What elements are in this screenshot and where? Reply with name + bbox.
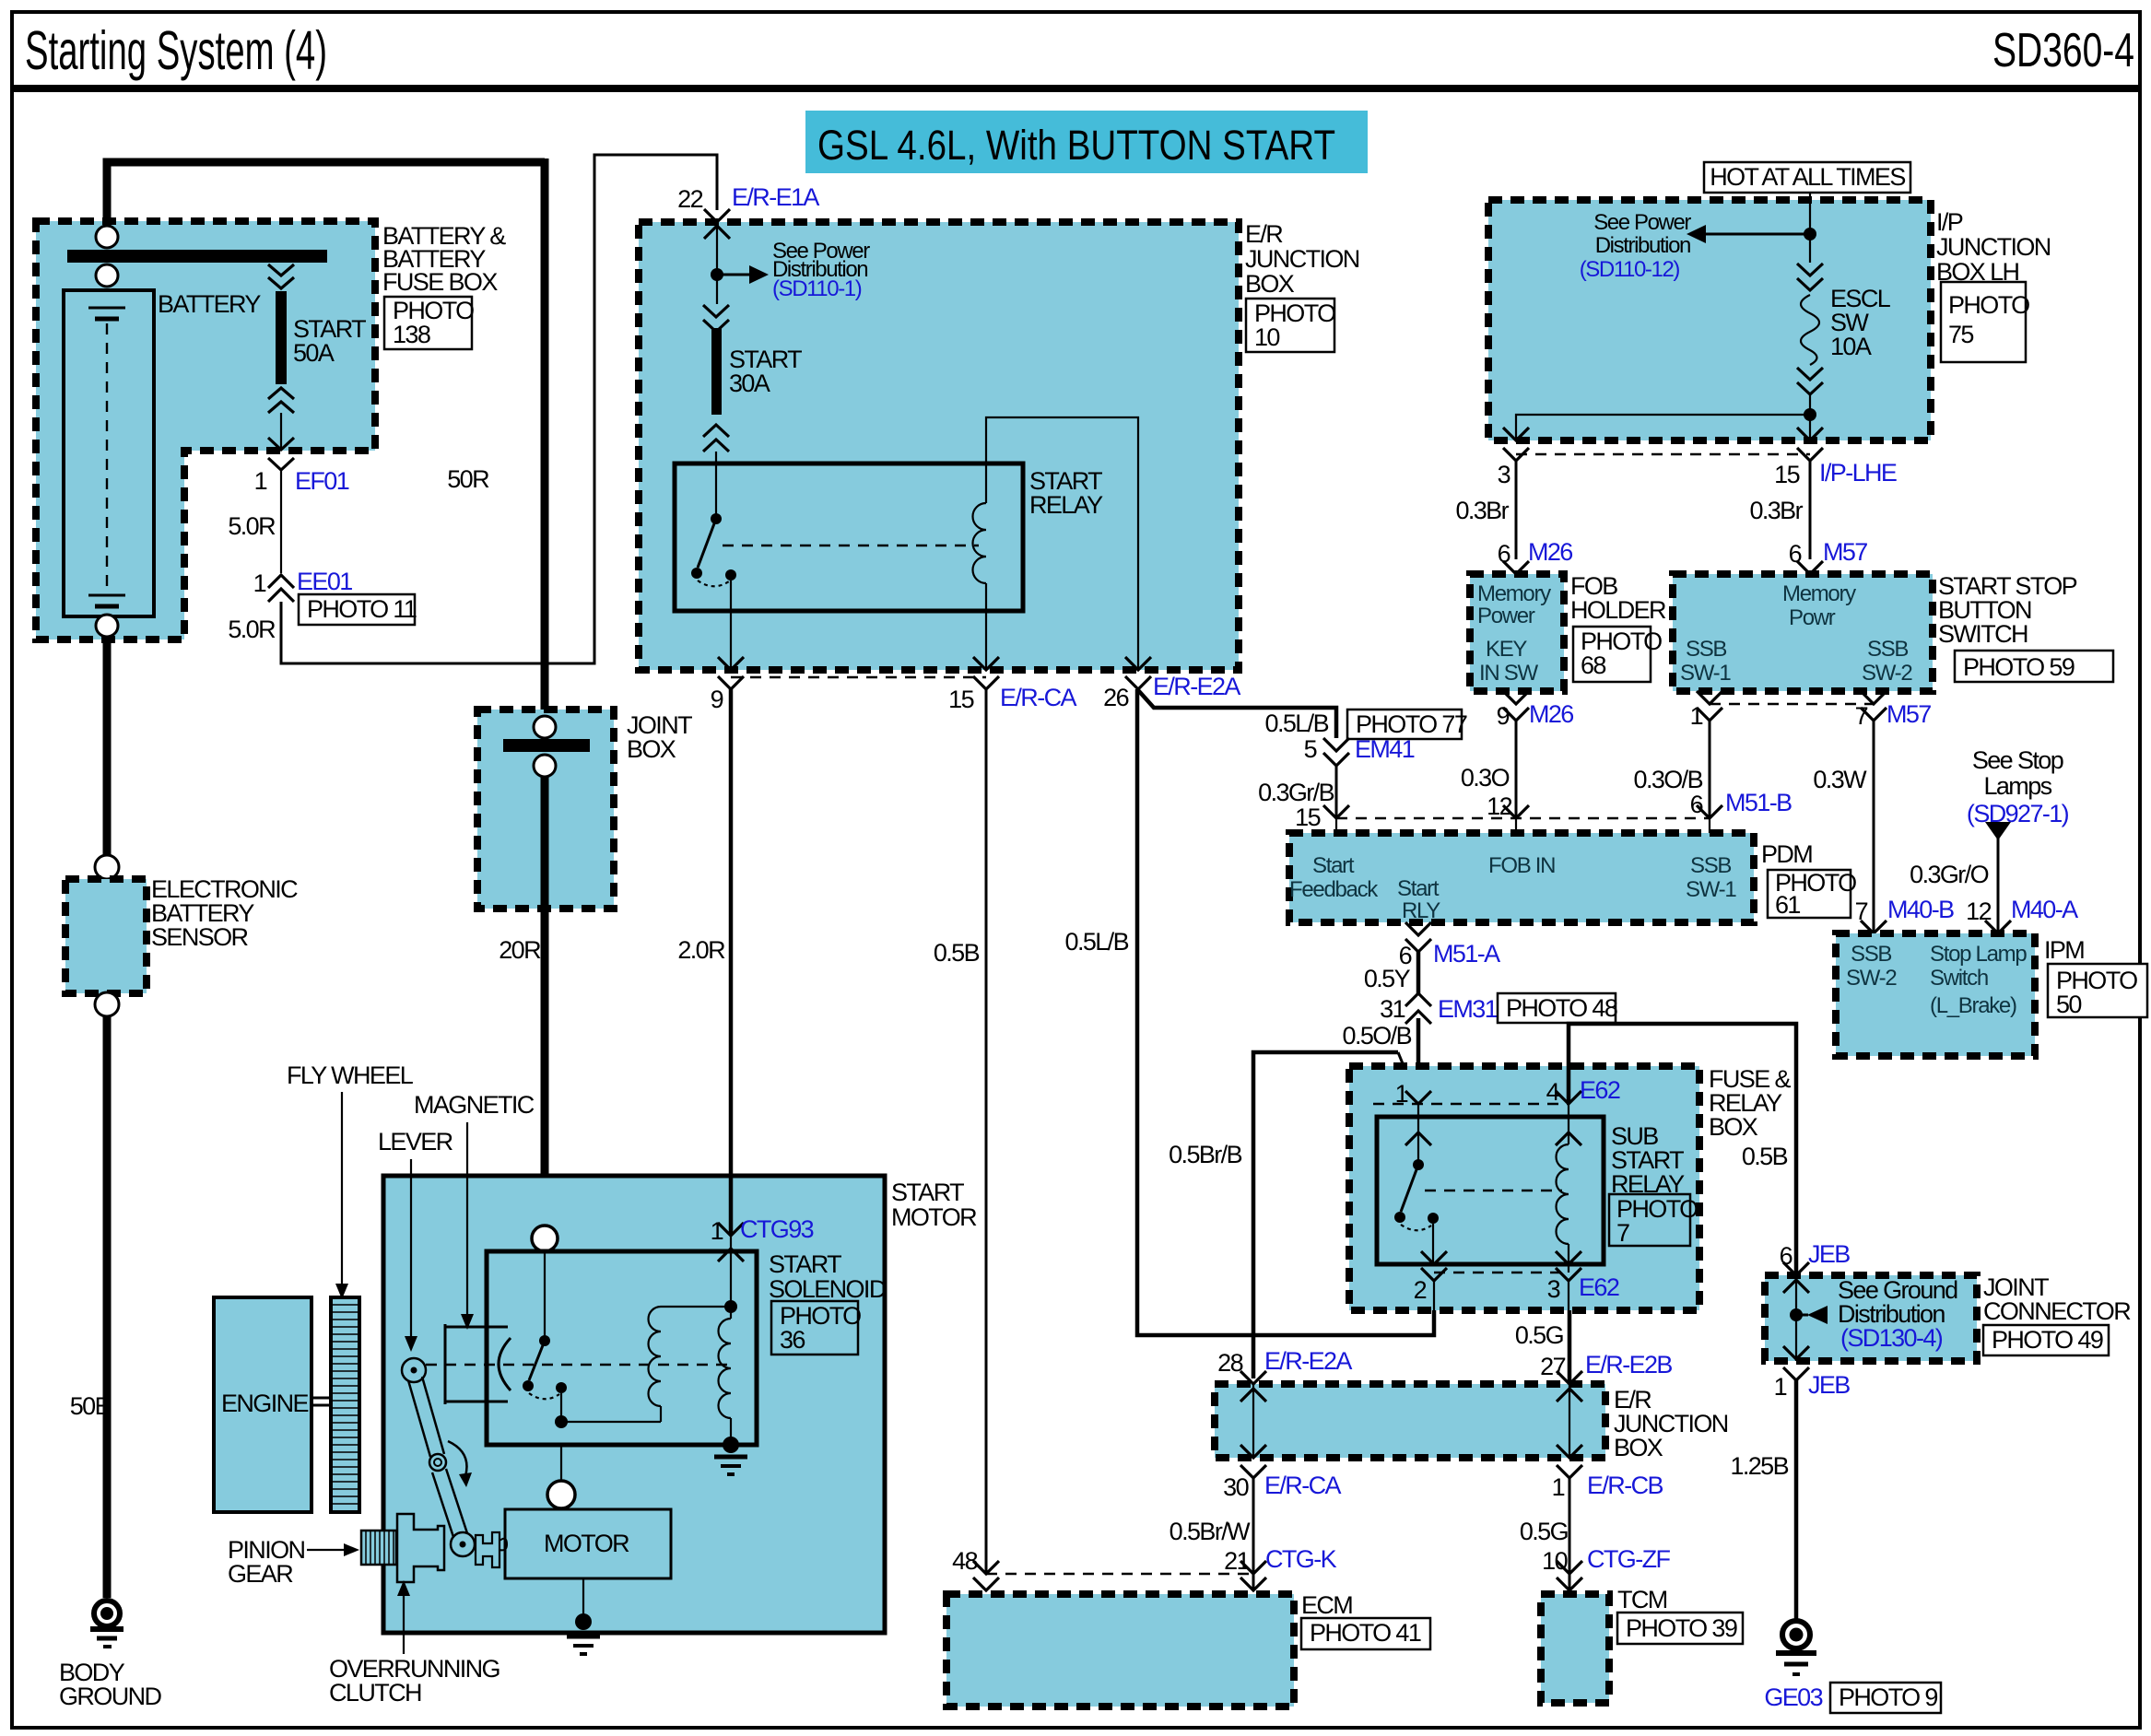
chevrons below ESCL: [1797, 368, 1823, 394]
arrows at box bottom pin9: [718, 657, 744, 689]
svg-text:PHOTO 77: PHOTO 77: [1356, 710, 1467, 738]
electronic battery sensor box: [65, 879, 147, 993]
solenoid dotted throw arc: [529, 1393, 559, 1399]
wire 0.5Br/W 30 to CTG-K: [1252, 1478, 1255, 1590]
wire 22 to junction dot: [716, 222, 718, 304]
svg-text:Starting System (4): Starting System (4): [25, 20, 327, 81]
junction dot see power: [711, 268, 723, 281]
hold-in coil junction dot: [724, 1300, 737, 1313]
solenoid contact dot right: [556, 1382, 567, 1393]
relay2 switch common dot: [1413, 1159, 1424, 1170]
svg-text:15: 15: [1774, 461, 1799, 488]
svg-text:15: 15: [948, 686, 973, 713]
svg-text:SWITCH: SWITCH: [1938, 620, 2028, 648]
wire EE01 loop to E/R-E1A: [281, 155, 717, 663]
svg-text:0.3O/B: 0.3O/B: [1634, 766, 1703, 793]
connector 21: [1240, 1561, 1266, 1590]
relay2 switch arm: [1401, 1165, 1418, 1212]
wire 2.0R relay9 to CTG93: [729, 689, 734, 1235]
svg-text:PHOTO 41: PHOTO 41: [1310, 1619, 1421, 1647]
branch wire left to pin3: [1516, 415, 1810, 440]
fuse START 30A bar: [711, 328, 722, 415]
PDM pin V 6: [1697, 805, 1722, 818]
E/R junction box dashed: [639, 222, 1239, 670]
svg-text:9: 9: [711, 686, 723, 713]
relay2 coil wire bottom: [1568, 1244, 1569, 1273]
battery terminal circle 2: [96, 264, 118, 287]
solenoid plunger: [444, 1324, 447, 1404]
connector 9 M26 below FOB: [1503, 691, 1529, 721]
svg-text:START: START: [769, 1250, 841, 1278]
svg-text:48: 48: [952, 1547, 977, 1575]
connector 28 V at top: [1240, 1371, 1266, 1384]
pin row dashed bottom: [1434, 1272, 1569, 1273]
svg-text:LEVER: LEVER: [378, 1128, 453, 1155]
svg-text:PHOTO: PHOTO: [1948, 291, 2029, 319]
fuse START 50A bar: [276, 291, 287, 384]
battery bottom terminal circle: [96, 615, 118, 637]
wire contact to motor node: [560, 1393, 562, 1422]
svg-text:GROUND: GROUND: [59, 1683, 161, 1710]
wire 0.5O/B horizontal to 28: [1253, 1052, 1398, 1378]
relay contact dot left: [691, 568, 702, 579]
svg-text:ENGINE: ENGINE: [221, 1390, 309, 1417]
solenoid ground dot: [723, 1437, 739, 1453]
svg-text:Memory: Memory: [1782, 581, 1856, 606]
chevrons below fuse: [703, 425, 729, 452]
see power distribution arrow left: [1706, 233, 1810, 236]
connector M51-A below PDM: [1405, 922, 1431, 952]
relay switch common dot: [711, 513, 722, 524]
clutch spring squiggle: [500, 1539, 507, 1551]
svg-text:M57: M57: [1887, 700, 1931, 728]
PDM wires into box: [1336, 818, 1710, 833]
battery bus bar: [67, 250, 327, 263]
svg-text:Stop Lamp: Stop Lamp: [1930, 942, 2027, 967]
svg-text:JUNCTION: JUNCTION: [1936, 233, 2051, 261]
relay dotted throw arc: [698, 581, 729, 586]
battery box: [64, 290, 154, 616]
chevron below 22 inside box: [704, 226, 730, 239]
connector 27 V at top: [1557, 1371, 1582, 1384]
pass-through wire 28-30: [1252, 1384, 1254, 1458]
wire EM31 to pin1: [1416, 1018, 1421, 1102]
connector 48: [973, 1561, 999, 1590]
lever arm lower: [432, 1472, 453, 1537]
ground GE03: [1782, 1621, 1810, 1648]
start solenoid box: [487, 1251, 757, 1445]
svg-text:M57: M57: [1823, 538, 1867, 566]
chevron up 27: [1557, 1389, 1582, 1402]
svg-text:E/R-CA: E/R-CA: [1264, 1472, 1341, 1499]
wire 0.3W SSB2 to IPM: [1873, 721, 1875, 933]
svg-text:0.3Br: 0.3Br: [1749, 497, 1803, 524]
svg-text:MOTOR: MOTOR: [544, 1530, 629, 1557]
chevrons above fuse: [703, 305, 729, 332]
svg-text:M26: M26: [1529, 700, 1573, 728]
relay2 mech dashed link: [1425, 1190, 1562, 1191]
svg-text:10: 10: [1254, 323, 1279, 351]
flywheel pointer arrow: [341, 1092, 343, 1285]
svg-text:5: 5: [1304, 735, 1317, 763]
clutch fork bracket: [476, 1532, 500, 1567]
connector row dashed 9-15: [731, 676, 986, 678]
20R terminal circle on solenoid: [532, 1226, 558, 1251]
PHOTO 77 box: [1347, 710, 1462, 739]
wire contact to pin2: [1432, 1224, 1434, 1264]
svg-text:61: 61: [1775, 891, 1800, 919]
connector 7 M57 below SSB: [1861, 691, 1887, 721]
E/R junction box 2 dashed: [1215, 1384, 1605, 1458]
connector EM31 chevrons: [1405, 993, 1431, 1024]
solenoid lower junction dot: [555, 1415, 568, 1428]
svg-text:20R: 20R: [499, 936, 541, 964]
engine shaft: [311, 1397, 331, 1400]
svg-text:0.3Gr/B: 0.3Gr/B: [1258, 779, 1334, 806]
arrow down at jeb bottom: [1783, 1346, 1809, 1380]
svg-text:FUSE BOX: FUSE BOX: [382, 268, 498, 296]
connector EF01 arrows: [268, 438, 294, 470]
plunger cap arc: [499, 1338, 511, 1390]
svg-text:JUNCTION: JUNCTION: [1245, 245, 1359, 273]
arrow down 1: [1557, 1445, 1582, 1478]
wire EM41 to PDM15: [1335, 766, 1338, 818]
pinion pointer arrow: [307, 1549, 346, 1551]
pin2 arrow at relay box bottom: [1421, 1251, 1447, 1281]
PHOTO 75 box: [1941, 282, 2026, 362]
relay coil wire top: [986, 417, 1138, 670]
svg-text:Memory: Memory: [1477, 581, 1551, 606]
svg-text:SW-2: SW-2: [1846, 966, 1897, 991]
PHOTO 49 box: [1983, 1325, 2109, 1355]
junction dot: [1804, 228, 1816, 240]
PDM box dashed: [1289, 833, 1754, 922]
svg-text:(SD110-1): (SD110-1): [772, 276, 862, 301]
svg-text:Lamps: Lamps: [1983, 772, 2051, 800]
svg-text:(SD130-4): (SD130-4): [1840, 1324, 1943, 1352]
svg-text:30A: 30A: [729, 369, 770, 397]
wire inside jeb: [1795, 1275, 1797, 1361]
motor terminal circle: [547, 1481, 575, 1508]
connector EE01 chevrons: [268, 575, 294, 602]
svg-text:MOTOR: MOTOR: [891, 1203, 977, 1231]
svg-text:HOT AT ALL TIMES: HOT AT ALL TIMES: [1710, 163, 1905, 191]
overrunning pointer arrow: [403, 1594, 405, 1654]
svg-text:SSB: SSB: [1686, 637, 1726, 662]
hold-in coil: [719, 1319, 732, 1418]
svg-text:0.5B: 0.5B: [1742, 1143, 1788, 1170]
relay switch arm: [698, 519, 716, 568]
see power branch arrow: [717, 274, 749, 276]
lever elbow circle: [429, 1454, 446, 1471]
svg-text:EM41: EM41: [1355, 735, 1415, 763]
svg-text:0.3W: 0.3W: [1813, 766, 1867, 793]
connector 10: [1557, 1561, 1582, 1590]
svg-text:3: 3: [1498, 461, 1510, 488]
svg-text:138: 138: [393, 321, 430, 348]
ECM box dashed: [946, 1594, 1294, 1707]
wire 0.5L/B vertical 26 to pin2 loop: [1137, 689, 1434, 1335]
lever top circle: [402, 1358, 426, 1382]
FOB holder box dashed: [1470, 574, 1564, 691]
connector 22 E/R-E1A: [704, 209, 730, 239]
wire 0.3Br right M57: [1809, 461, 1812, 559]
banner box GSL 4.6L: [805, 111, 1368, 173]
svg-text:RELAY: RELAY: [1029, 491, 1103, 519]
svg-text:PHOTO 39: PHOTO 39: [1626, 1614, 1737, 1642]
solenoid switch arm: [529, 1341, 545, 1380]
svg-text:Distribution: Distribution: [1595, 233, 1690, 258]
svg-text:See Stop: See Stop: [1972, 746, 2063, 774]
svg-text:1: 1: [1774, 1373, 1787, 1401]
svg-text:15: 15: [1295, 803, 1320, 831]
wire 50B battery to sensor: [103, 637, 112, 856]
arrows at box bottom pin26: [1125, 657, 1151, 689]
wire pin1 to switch: [1417, 1104, 1419, 1165]
svg-text:SOLENOID: SOLENOID: [769, 1275, 887, 1303]
svg-text:GEAR: GEAR: [228, 1560, 293, 1588]
svg-text:BOX: BOX: [1709, 1113, 1758, 1141]
connector 12 M40-A: [1985, 921, 2011, 933]
svg-text:0.3O: 0.3O: [1461, 764, 1510, 792]
svg-text:0.5G: 0.5G: [1520, 1518, 1568, 1545]
motor ground dot: [575, 1613, 592, 1630]
svg-text:75: 75: [1948, 321, 1973, 348]
battery symbol top plates: [88, 307, 125, 310]
relay2 contact dot right: [1428, 1213, 1439, 1224]
wire to lower junction dot: [1809, 394, 1811, 440]
flywheel: [331, 1297, 359, 1512]
connector 6 M26: [1503, 561, 1529, 574]
svg-text:1: 1: [1552, 1473, 1565, 1501]
ECM pin row dashed: [986, 1573, 1253, 1575]
svg-text:5.0R: 5.0R: [228, 616, 276, 643]
pass-through wire 27-1: [1569, 1384, 1570, 1458]
TCM box dashed: [1541, 1594, 1609, 1703]
svg-text:10: 10: [1542, 1547, 1567, 1575]
START STOP BUTTON SWITCH box dashed: [1673, 574, 1933, 691]
wire motor to ground: [582, 1578, 584, 1620]
svg-text:SD360-4: SD360-4: [1992, 24, 2134, 77]
relay2 contact dot left: [1394, 1212, 1405, 1223]
wire 1.25B to ground: [1794, 1380, 1799, 1619]
pull-in coil: [649, 1307, 662, 1406]
jeb junction dot: [1790, 1308, 1803, 1321]
chevron up inside jeb: [1783, 1280, 1809, 1293]
svg-text:BOX: BOX: [1245, 270, 1295, 298]
header rule: [12, 85, 2140, 92]
svg-text:SENSOR: SENSOR: [151, 923, 249, 951]
pinion gear: [361, 1531, 396, 1565]
svg-text:BOX: BOX: [1614, 1434, 1663, 1461]
wire 20R joint box to start motor: [541, 777, 549, 1227]
wire CTG93 to coils: [730, 1236, 732, 1307]
wire fuse to relay switch: [715, 452, 717, 519]
svg-text:PHOTO 59: PHOTO 59: [1963, 653, 2075, 681]
arrow pin3 at box bottom: [1503, 428, 1529, 461]
svg-text:50R: 50R: [447, 465, 489, 493]
connector 7 M40-B: [1861, 921, 1887, 933]
battery center dashed: [106, 323, 108, 588]
wire 0.5Y: [1416, 952, 1421, 993]
chevron up 28: [1240, 1389, 1266, 1402]
wire 50R top horizontal thick: [107, 162, 545, 230]
svg-text:21: 21: [1224, 1547, 1249, 1575]
svg-text:0.5G: 0.5G: [1515, 1321, 1563, 1349]
relay output wire pin9: [730, 581, 732, 670]
svg-text:2.0R: 2.0R: [677, 936, 725, 964]
svg-text:BOX: BOX: [627, 735, 676, 763]
PHOTO 48 box: [1498, 993, 1616, 1023]
svg-text:0.5Y: 0.5Y: [1364, 965, 1411, 992]
connector 6 JEB V: [1783, 1262, 1809, 1275]
wire 0.3O FOB to PDM: [1515, 721, 1518, 818]
svg-text:Feedback: Feedback: [1289, 877, 1379, 902]
svg-text:E/R: E/R: [1245, 220, 1283, 248]
svg-text:28: 28: [1217, 1349, 1242, 1377]
svg-text:PHOTO 9: PHOTO 9: [1839, 1683, 1937, 1711]
svg-text:JEB: JEB: [1808, 1240, 1850, 1268]
svg-text:0.5Br/W: 0.5Br/W: [1170, 1518, 1251, 1545]
PHOTO 39 box: [1617, 1613, 1743, 1644]
motor box: [505, 1509, 671, 1578]
arrow down 30: [1240, 1445, 1266, 1478]
svg-text:GSL 4.6L, With BUTTON START: GSL 4.6L, With BUTTON START: [817, 122, 1335, 169]
terminal circle sensor top: [95, 855, 119, 879]
svg-text:CONNECTOR: CONNECTOR: [1983, 1297, 2131, 1325]
lever arm upper: [408, 1380, 430, 1457]
svg-text:1: 1: [1690, 702, 1703, 730]
connector 6 M57: [1797, 561, 1823, 574]
svg-text:CLUTCH: CLUTCH: [329, 1679, 421, 1707]
engine box: [214, 1297, 311, 1512]
svg-text:E/R-E2A: E/R-E2A: [1153, 673, 1240, 700]
svg-text:3: 3: [1547, 1275, 1560, 1303]
pin3 arrow at relay box bottom: [1556, 1251, 1581, 1281]
svg-text:Power: Power: [1477, 604, 1535, 628]
svg-text:E/R-CB: E/R-CB: [1587, 1472, 1663, 1499]
svg-text:6: 6: [1690, 791, 1703, 818]
svg-text:E/R-E2B: E/R-E2B: [1585, 1351, 1672, 1378]
svg-text:50A: 50A: [293, 339, 335, 367]
svg-text:7: 7: [1855, 702, 1868, 730]
svg-text:SW-2: SW-2: [1862, 661, 1912, 686]
joint box terminal circle bottom: [534, 755, 556, 777]
svg-text:FOB IN: FOB IN: [1488, 853, 1555, 878]
chevrons above ESCL: [1797, 264, 1823, 290]
PHOTO 61 box: [1768, 870, 1851, 918]
svg-text:START: START: [891, 1179, 964, 1206]
svg-text:MAGNETIC: MAGNETIC: [414, 1091, 535, 1119]
wire node to pull-in coil: [561, 1421, 661, 1423]
svg-text:7: 7: [1616, 1219, 1629, 1247]
svg-text:RLY: RLY: [1402, 898, 1440, 923]
svg-text:I/P-LHE: I/P-LHE: [1819, 459, 1897, 487]
svg-text:M51-B: M51-B: [1725, 789, 1792, 816]
battery & battery fuse box (dashed L-shaped box): [36, 221, 375, 639]
svg-text:TCM: TCM: [1617, 1586, 1667, 1613]
fuse START 50A chevrons bottom: [268, 388, 294, 413]
svg-text:0.3Br: 0.3Br: [1455, 497, 1509, 524]
svg-text:(SD110-12): (SD110-12): [1580, 257, 1680, 282]
overrunning clutch body: [397, 1514, 444, 1582]
relay2 coil: [1557, 1144, 1569, 1244]
svg-text:M40-A: M40-A: [2011, 896, 2078, 923]
wire 5.0R EF01-EE01: [280, 470, 282, 573]
body ground symbol: [94, 1601, 120, 1626]
svg-text:30: 30: [1223, 1473, 1248, 1501]
battery terminal circle top: [96, 226, 118, 248]
svg-text:SSB: SSB: [1690, 853, 1731, 878]
solenoid ground: [714, 1455, 747, 1460]
battery symbol bottom plates: [88, 594, 125, 597]
relay2 dotted throw arc: [1401, 1225, 1431, 1230]
svg-text:1: 1: [1395, 1080, 1408, 1108]
ESCL SW breaker squiggle: [1801, 295, 1819, 365]
svg-text:Powr: Powr: [1789, 605, 1836, 630]
wire 0.5G 1 to CTG-ZF: [1569, 1478, 1571, 1590]
svg-text:SSB: SSB: [1851, 942, 1891, 967]
I/P junction box LH dashed: [1488, 200, 1931, 440]
svg-text:1: 1: [711, 1217, 723, 1245]
svg-text:EM31: EM31: [1438, 995, 1498, 1023]
svg-text:PHOTO 49: PHOTO 49: [1992, 1326, 2103, 1354]
svg-text:2: 2: [1414, 1276, 1427, 1304]
start motor box: [383, 1176, 885, 1633]
PHOTO 10 box: [1246, 299, 1334, 352]
pin row dashed top: [1373, 1103, 1569, 1105]
fuse START 50A connector chevrons top: [268, 264, 294, 288]
relay mech dashed link: [723, 545, 979, 546]
svg-text:M26: M26: [1528, 538, 1572, 566]
PDM pin V 15: [1323, 805, 1349, 818]
pin1 chevron inside: [1405, 1132, 1431, 1145]
wire solenoid to motor terminal: [560, 1445, 562, 1481]
connector 1 below SSB: [1697, 691, 1722, 721]
joint box dashed: [477, 710, 614, 909]
wire 0.5G pin3 to 27: [1568, 1281, 1569, 1310]
hold-in coil top wire: [730, 1307, 732, 1319]
relay coil: [973, 503, 987, 583]
wire 50R vertical thick: [541, 158, 549, 719]
wire HOT to junction dot: [1809, 193, 1811, 263]
svg-text:6: 6: [1498, 540, 1510, 568]
svg-text:0.5Br/B: 0.5Br/B: [1169, 1141, 1241, 1168]
connector row dashed 3-15: [1516, 453, 1810, 455]
svg-text:SSB: SSB: [1867, 637, 1908, 662]
wire 0.5B pin4 up and over to JEB: [1569, 1024, 1796, 1275]
motor ground: [567, 1635, 600, 1639]
pull-in coil riser: [660, 1406, 662, 1422]
svg-text:PHOTO 11: PHOTO 11: [307, 595, 417, 623]
svg-text:1.25B: 1.25B: [1730, 1452, 1788, 1480]
svg-text:50B: 50B: [70, 1392, 111, 1420]
svg-text:EE01: EE01: [297, 568, 352, 595]
svg-text:0.5L/B: 0.5L/B: [1065, 928, 1129, 956]
svg-text:BATTERY: BATTERY: [158, 290, 261, 318]
wire 0.5L/B horizontal to EM41: [1137, 689, 1336, 738]
connector EM41: [1323, 738, 1349, 766]
START RELAY box: [675, 463, 1023, 611]
rotation arrow: [448, 1441, 466, 1476]
svg-text:6: 6: [1789, 540, 1802, 568]
svg-text:SW-1: SW-1: [1680, 661, 1731, 686]
PHOTO 59 box: [1955, 651, 2113, 682]
lower junction dot: [1804, 408, 1816, 421]
diagonal tap to pin1: [1398, 1052, 1418, 1102]
svg-text:EF01: EF01: [295, 467, 349, 495]
wire 0.3Gr/O to IPM: [1997, 837, 2000, 933]
